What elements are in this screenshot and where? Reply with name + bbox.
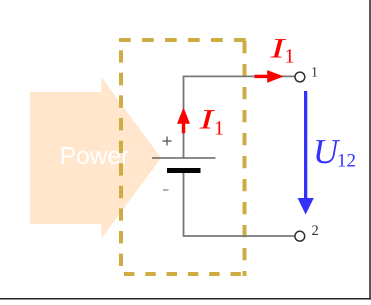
svg-text:1: 1 [285,46,295,68]
svg-text:1: 1 [311,66,318,81]
svg-text:Power: Power [60,143,129,170]
svg-text:1: 1 [214,118,224,140]
svg-text:12: 12 [337,151,356,172]
svg-text:2: 2 [312,223,319,239]
